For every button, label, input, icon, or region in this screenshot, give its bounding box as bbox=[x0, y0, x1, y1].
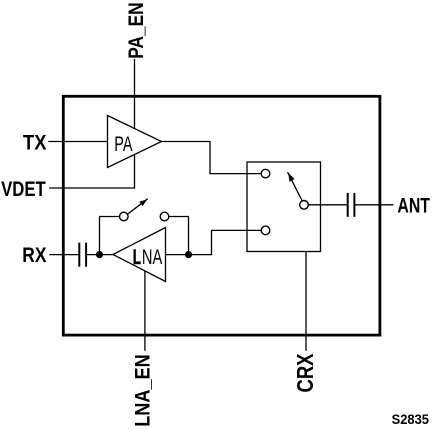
switch contact TX throw bbox=[261, 169, 270, 178]
svg-text:RX: RX bbox=[22, 244, 46, 267]
svg-text:PA: PA bbox=[114, 133, 132, 156]
capacitor C1 ANT coupling bbox=[348, 193, 355, 217]
wire capacitor to ANT pin bbox=[354, 204, 393, 206]
junction node LNA input bbox=[185, 251, 192, 258]
svg-text:NA: NA bbox=[142, 246, 162, 269]
svg-text:CRX: CRX bbox=[292, 353, 318, 393]
switch arm with arrow bbox=[288, 172, 302, 200]
op-amp LNA U2 bbox=[113, 228, 166, 282]
svg-text:PA_EN: PA_EN bbox=[125, 2, 148, 59]
svg-text:VDET: VDET bbox=[1, 178, 46, 201]
wire CRX bbox=[305, 252, 307, 351]
wire RX to capacitor bbox=[49, 254, 79, 256]
bypass switch arm arrow bbox=[128, 199, 148, 214]
IC block outline bbox=[63, 96, 380, 335]
bypass switch contact left bbox=[120, 212, 129, 221]
switch pole antenna common bbox=[300, 201, 309, 210]
svg-text:LNA_EN: LNA_EN bbox=[132, 354, 155, 427]
switch box S1 bbox=[247, 162, 321, 252]
junction node LNA output bbox=[96, 251, 103, 258]
switch contact RX throw bbox=[261, 226, 270, 235]
op-amp PA U1 bbox=[108, 116, 162, 168]
wire LNA input from switch bbox=[166, 230, 262, 254]
svg-text:S2835: S2835 bbox=[392, 411, 430, 427]
capacitor C2 RX coupling bbox=[79, 243, 86, 267]
wire LNA_EN bbox=[144, 271, 146, 351]
wire PA_EN bbox=[134, 59, 136, 129]
wire TX to PA input bbox=[48, 141, 107, 143]
wire VDET to PA bbox=[49, 155, 134, 189]
bypass switch contact right bbox=[160, 212, 169, 221]
bypass switch wire right bbox=[169, 217, 189, 255]
wire capacitor to LNA output bbox=[86, 254, 113, 256]
svg-text:TX: TX bbox=[23, 131, 47, 154]
svg-text:L: L bbox=[133, 246, 141, 269]
wire switch pole to ANT capacitor bbox=[308, 204, 347, 206]
wire PA output to switch bbox=[162, 142, 262, 174]
svg-text:ANT: ANT bbox=[397, 194, 430, 217]
bypass switch wire left bbox=[100, 217, 120, 255]
